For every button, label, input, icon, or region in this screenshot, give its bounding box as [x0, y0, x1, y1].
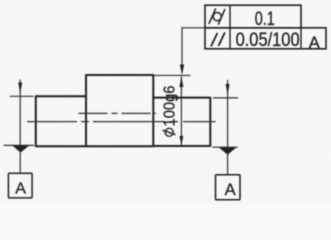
feature control frame row 1 box	[205, 5, 301, 28]
right datum leader	[227, 155, 229, 176]
frame cell divider row2 datum	[300, 28, 302, 50]
right datum box	[216, 175, 241, 200]
right datum: dimension line with arrow	[227, 80, 229, 147]
parallelism symbol	[211, 32, 225, 46]
shaft outline	[36, 75, 211, 146]
right datum arrowhead	[226, 84, 230, 95]
right journal	[153, 98, 210, 146]
frame cell divider row2 symbol	[229, 28, 231, 50]
feature control frame row 2 box	[205, 28, 326, 49]
dimension text phi100g6 (rotated)	[163, 128, 176, 136]
dimension arrow up	[179, 76, 183, 87]
dimension extension line top	[153, 74, 190, 76]
left journal	[36, 96, 86, 146]
dimension arrow down	[180, 136, 184, 146]
left datum: dimension line with arrow	[19, 80, 21, 146]
left datum triangle	[12, 145, 30, 152]
upper centerline (phi100 axis)	[79, 112, 157, 114]
left datum arrowhead	[18, 83, 22, 94]
right extension tick bottom	[212, 146, 237, 148]
frame cell divider row1 symbol	[229, 6, 231, 29]
leader from frame	[182, 28, 205, 72]
left extension tick top	[10, 95, 34, 97]
leader arrowhead	[180, 65, 184, 76]
left datum leader	[19, 152, 21, 173]
center cylinder phi100	[86, 75, 153, 146]
right extension tick top	[213, 97, 238, 99]
cylindricity symbol	[209, 8, 225, 24]
lower centerline (journal axis, datum A)	[27, 121, 216, 123]
left extension tick bottom	[4, 144, 34, 146]
left datum box	[8, 173, 32, 198]
right datum triangle	[219, 148, 236, 155]
dimension line phi100g6	[180, 77, 182, 146]
